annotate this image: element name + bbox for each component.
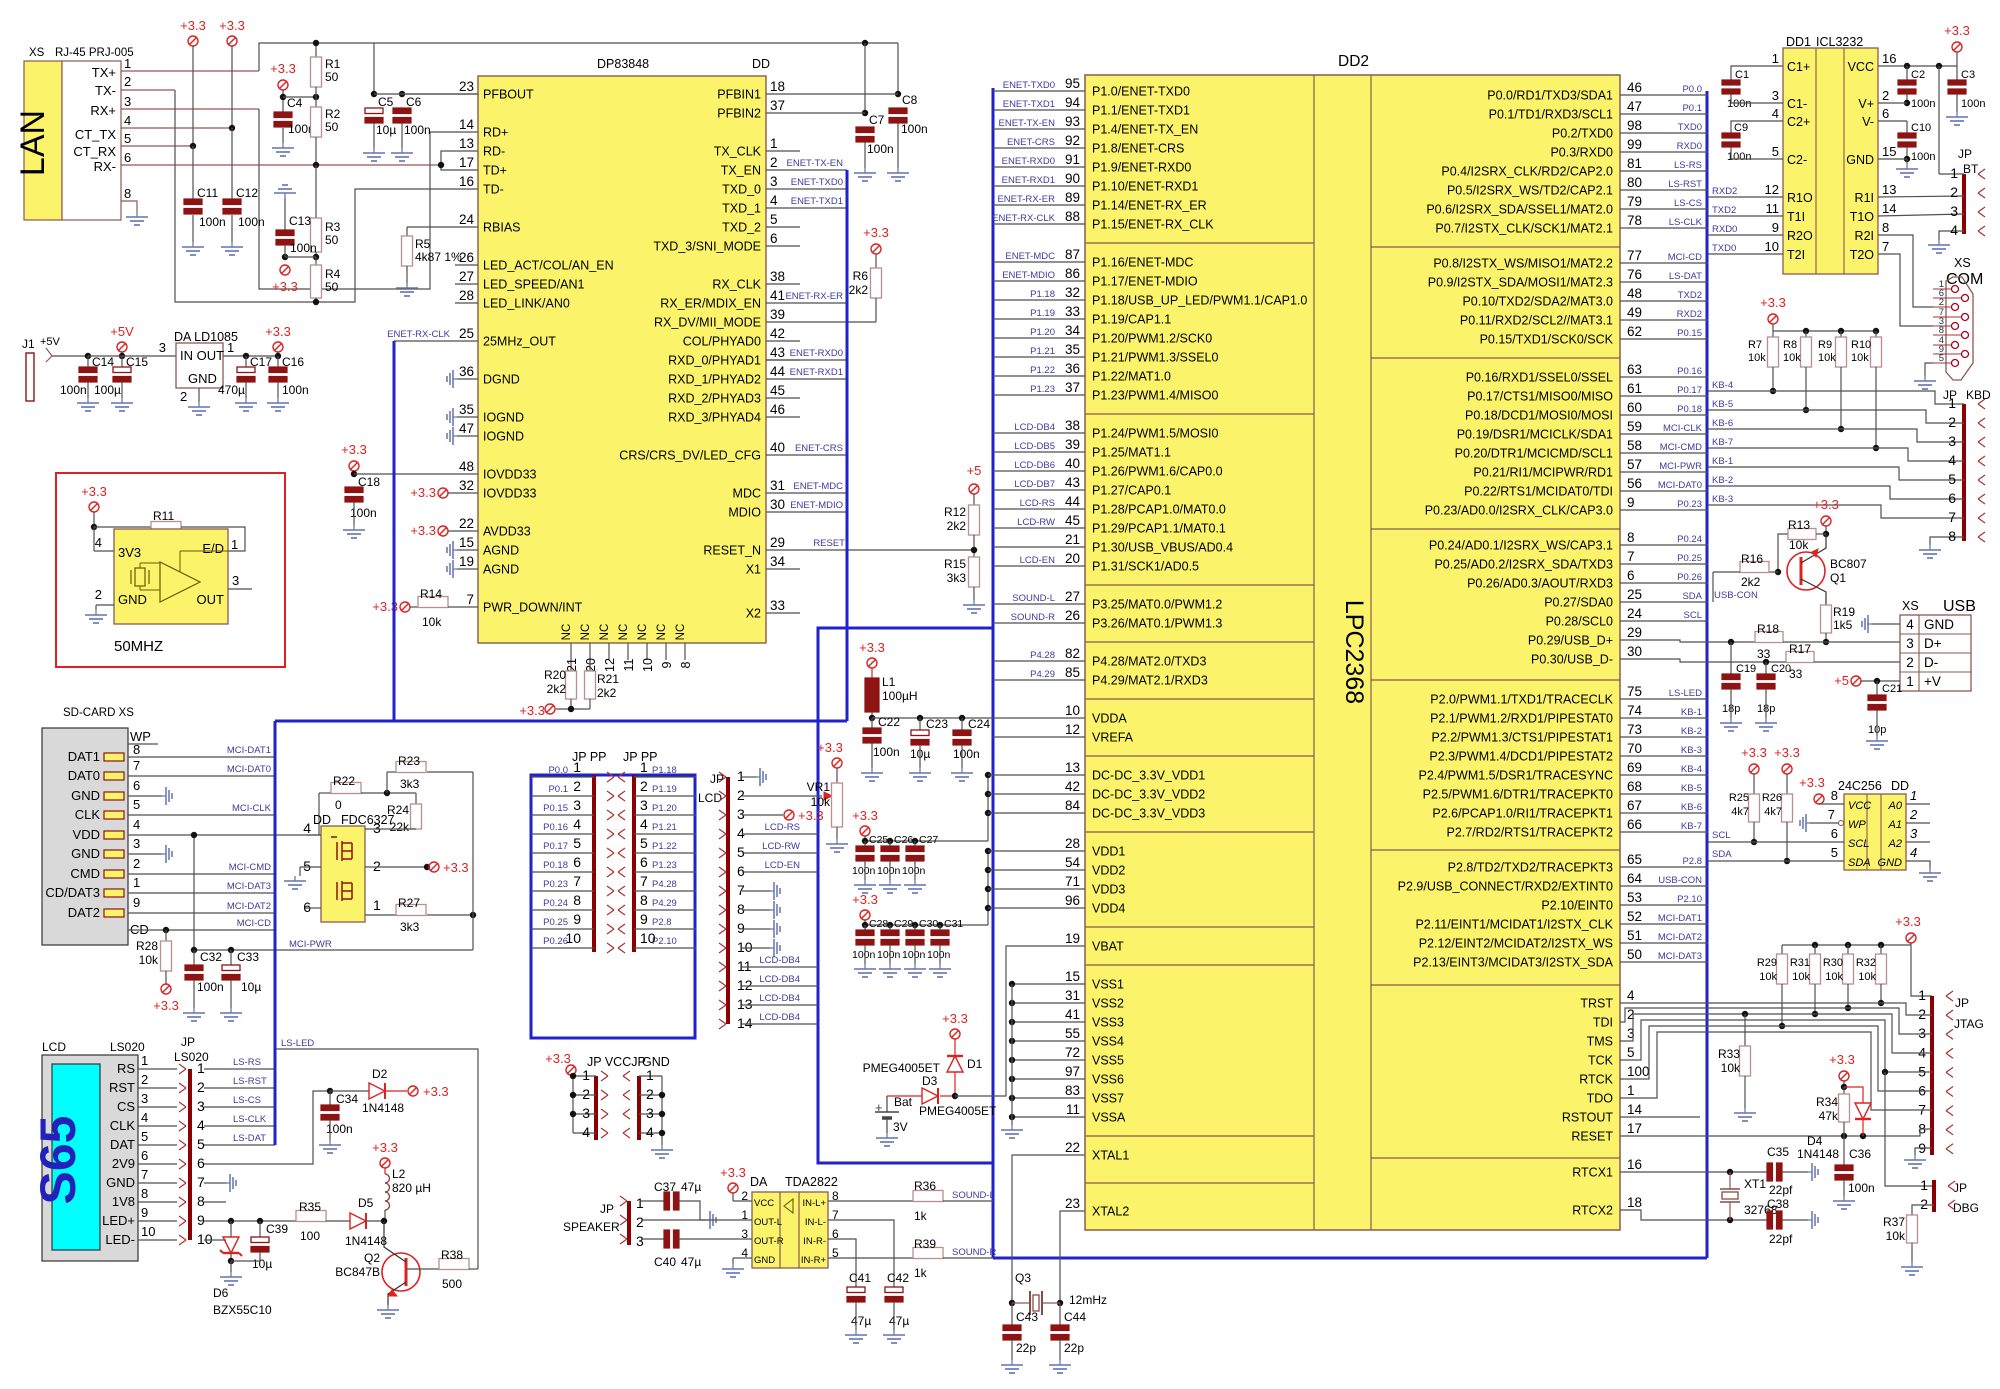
svg-text:PFBIN1: PFBIN1 bbox=[717, 88, 761, 102]
svg-text:P1.24/PWM1.5/MOSI0: P1.24/PWM1.5/MOSI0 bbox=[1092, 427, 1218, 441]
capacitor C24 100n bbox=[961, 718, 963, 730]
capacitor C14 100n bbox=[85, 353, 91, 359]
resistor R7 10k bbox=[1768, 337, 1779, 367]
power +3.3 below C13 bbox=[280, 265, 290, 275]
svg-text:9: 9 bbox=[737, 920, 745, 936]
svg-text:11: 11 bbox=[1066, 1102, 1080, 1117]
svg-text:P1.29/PCAP1.1/MAT0.1: P1.29/PCAP1.1/MAT0.1 bbox=[1092, 522, 1226, 536]
svg-text:ENET-TXD1: ENET-TXD1 bbox=[1003, 99, 1055, 110]
JP PP right pin 6 net P1.23 bbox=[634, 871, 696, 873]
svg-text:TXD0: TXD0 bbox=[1712, 243, 1736, 254]
svg-text:95: 95 bbox=[1065, 76, 1080, 91]
ground D6/C39 bbox=[230, 1261, 232, 1272]
svg-text:1: 1 bbox=[133, 875, 140, 890]
svg-text:10: 10 bbox=[141, 1224, 155, 1239]
net ENET-RX-CLK from 25MHz_OUT bbox=[394, 340, 478, 342]
svg-text:KB-4: KB-4 bbox=[1681, 764, 1702, 775]
svg-text:100n: 100n bbox=[197, 980, 224, 994]
svg-text:DP83848: DP83848 bbox=[597, 57, 649, 71]
svg-text:COL/PHYAD0: COL/PHYAD0 bbox=[683, 335, 761, 349]
ground JP LCD pin10 bbox=[742, 947, 770, 949]
JP LS020 pin 5 bbox=[179, 1140, 186, 1145]
svg-text:23: 23 bbox=[1065, 1196, 1080, 1211]
svg-text:+3.3: +3.3 bbox=[545, 1051, 571, 1066]
ground AGND rotated bbox=[453, 549, 457, 551]
wire LED+ row bbox=[204, 1220, 296, 1222]
JP VCCJP pin 2 bbox=[573, 1094, 596, 1096]
JP LCD pin 3 bbox=[719, 810, 726, 815]
wire V+ row bbox=[1878, 102, 1907, 104]
svg-text:R33: R33 bbox=[1718, 1047, 1740, 1061]
ground C43 bbox=[1011, 1360, 1013, 1365]
svg-text:R15: R15 bbox=[944, 557, 966, 571]
svg-text:10k: 10k bbox=[811, 795, 831, 809]
svg-text:RX+: RX+ bbox=[90, 103, 116, 118]
svg-text:R31: R31 bbox=[1790, 957, 1810, 969]
svg-text:LCD-RW: LCD-RW bbox=[762, 841, 800, 852]
svg-text:VSSA: VSSA bbox=[1092, 1111, 1126, 1125]
svg-text:2k2: 2k2 bbox=[1741, 575, 1761, 589]
COM pin 6 bbox=[1962, 295, 1969, 302]
svg-text:P2.8/TD2/TXD2/TRACEPKT3: P2.8/TD2/TXD2/TRACEPKT3 bbox=[1448, 861, 1613, 875]
svg-text:P0.8/I2STX_WS/MISO1/MAT2.2: P0.8/I2STX_WS/MISO1/MAT2.2 bbox=[1433, 257, 1613, 271]
svg-text:70: 70 bbox=[1627, 741, 1642, 756]
svg-text:D3: D3 bbox=[922, 1074, 938, 1088]
svg-text:ENET-RXD0: ENET-RXD0 bbox=[1002, 156, 1055, 167]
svg-text:2k2: 2k2 bbox=[947, 519, 967, 533]
wire VCC to +3.3 bbox=[1878, 65, 1957, 67]
svg-text:1k: 1k bbox=[914, 1209, 928, 1223]
svg-text:36: 36 bbox=[1065, 361, 1080, 376]
svg-text:9: 9 bbox=[141, 1205, 148, 1220]
svg-text:P4.29: P4.29 bbox=[1030, 669, 1055, 680]
JP LCD pin 11 bbox=[719, 962, 726, 967]
ground C41 bbox=[855, 1330, 857, 1335]
svg-text:S65: S65 bbox=[30, 1116, 86, 1205]
svg-text:D+: D+ bbox=[1924, 636, 1942, 651]
svg-text:CLK: CLK bbox=[110, 1118, 136, 1133]
svg-text:R14: R14 bbox=[420, 587, 442, 601]
svg-text:7: 7 bbox=[141, 1167, 148, 1182]
svg-text:3k3: 3k3 bbox=[947, 571, 967, 585]
net LCD-DB4 pin12 bbox=[742, 985, 818, 987]
svg-text:VDD2: VDD2 bbox=[1092, 864, 1125, 878]
svg-text:100n: 100n bbox=[902, 865, 926, 877]
JTAG pin9 ground bbox=[1915, 1148, 1932, 1155]
svg-text:1: 1 bbox=[1948, 395, 1956, 411]
svg-text:JP: JP bbox=[1953, 1181, 1967, 1195]
svg-text:C42: C42 bbox=[887, 1271, 909, 1285]
svg-text:P1.23: P1.23 bbox=[1030, 384, 1055, 395]
svg-text:P2.10: P2.10 bbox=[652, 936, 677, 947]
wire GND rail bbox=[661, 1076, 663, 1145]
osc buffer triangle bbox=[160, 562, 200, 602]
svg-text:12mHz: 12mHz bbox=[1069, 1293, 1107, 1307]
svg-text:D4: D4 bbox=[1807, 1134, 1823, 1148]
svg-text:XT1: XT1 bbox=[1744, 1177, 1766, 1191]
svg-text:LCD-RW: LCD-RW bbox=[1017, 517, 1055, 528]
svg-text:4k7: 4k7 bbox=[1731, 806, 1749, 818]
svg-text:CT_RX: CT_RX bbox=[73, 144, 116, 159]
svg-text:+3.3: +3.3 bbox=[372, 1140, 398, 1155]
wire VDDA rail bbox=[872, 717, 1085, 719]
svg-text:A2: A2 bbox=[1888, 838, 1902, 850]
svg-text:D1: D1 bbox=[967, 1057, 983, 1071]
svg-text:100n: 100n bbox=[953, 747, 980, 761]
SD CD wire bbox=[128, 929, 275, 931]
COM pin 7 bbox=[1962, 314, 1969, 321]
svg-text:4: 4 bbox=[770, 193, 778, 208]
svg-text:C2: C2 bbox=[1911, 69, 1925, 81]
resistor R32 10k bbox=[1876, 954, 1887, 984]
svg-text:C33: C33 bbox=[237, 950, 259, 964]
svg-text:92: 92 bbox=[1065, 133, 1080, 148]
ground JP LCD pin7 bbox=[742, 890, 770, 892]
resistor R34 47k bbox=[1843, 1087, 1845, 1094]
capacitor C26 100n bbox=[887, 838, 893, 844]
svg-text:6: 6 bbox=[303, 899, 311, 915]
svg-text:R26: R26 bbox=[1762, 792, 1782, 804]
svg-text:P0.15/TXD1/SCK0/SCK: P0.15/TXD1/SCK0/SCK bbox=[1480, 333, 1614, 347]
svg-text:R1O: R1O bbox=[1787, 191, 1813, 205]
svg-text:6: 6 bbox=[124, 150, 131, 165]
svg-text:ENET-RX-CLK: ENET-RX-CLK bbox=[387, 329, 450, 340]
svg-text:3k3: 3k3 bbox=[400, 920, 420, 934]
JP LS020 pin 6 bbox=[179, 1159, 186, 1164]
JP LCD pin 14 bbox=[719, 1019, 726, 1024]
net LCD-DB4 pin14 bbox=[742, 1023, 818, 1025]
svg-text:+3.3: +3.3 bbox=[519, 703, 545, 718]
svg-text:P1.18: P1.18 bbox=[652, 765, 677, 776]
svg-text:D5: D5 bbox=[358, 1196, 374, 1210]
svg-text:5: 5 bbox=[1831, 845, 1838, 860]
svg-text:P0.3/RXD0: P0.3/RXD0 bbox=[1550, 146, 1613, 160]
svg-text:C25: C25 bbox=[869, 834, 888, 846]
capacitor C23 10u bbox=[919, 718, 921, 730]
svg-text:P0.17: P0.17 bbox=[543, 841, 568, 852]
svg-text:SPEAKER: SPEAKER bbox=[563, 1220, 620, 1234]
net TCK wire bbox=[1620, 1020, 1932, 1072]
svg-text:22: 22 bbox=[1065, 1140, 1080, 1155]
svg-text:P1.20: P1.20 bbox=[652, 803, 677, 814]
svg-text:P0.25: P0.25 bbox=[1677, 553, 1702, 564]
junction VBAT node bbox=[952, 1093, 958, 1099]
JP PP right pin 7 net P4.28 bbox=[634, 890, 696, 892]
resistor R33 10k bbox=[1742, 1011, 1748, 1017]
svg-text:JP: JP bbox=[600, 1202, 614, 1216]
svg-text:6: 6 bbox=[1882, 106, 1889, 121]
svg-text:KB-7: KB-7 bbox=[1712, 437, 1733, 448]
svg-text:KB-2: KB-2 bbox=[1681, 726, 1702, 737]
svg-text:Q1: Q1 bbox=[1830, 571, 1846, 585]
svg-text:VSS6: VSS6 bbox=[1092, 1073, 1124, 1087]
svg-text:+3.3: +3.3 bbox=[1829, 1052, 1855, 1067]
50MHZ oscillator module frame bbox=[56, 473, 285, 667]
svg-text:R17: R17 bbox=[1789, 642, 1811, 656]
net KB-2 to KBD pin 6 bbox=[1708, 486, 1964, 499]
inductor L2 820uH bbox=[385, 1174, 390, 1183]
capacitor C28 100n bbox=[862, 922, 868, 928]
rail R7-R10 tops bbox=[1773, 330, 1878, 332]
wire VCCJP rail bbox=[572, 1076, 574, 1133]
svg-text:SCL: SCL bbox=[1712, 830, 1730, 841]
resistor R24 22k bbox=[415, 793, 417, 804]
resistor R38 500 bbox=[406, 1268, 439, 1270]
capacitor C30 100n bbox=[912, 922, 918, 928]
svg-text:GND: GND bbox=[1878, 857, 1903, 869]
svg-text:NC: NC bbox=[599, 624, 611, 641]
svg-text:10k: 10k bbox=[1886, 1229, 1906, 1243]
svg-text:VCC: VCC bbox=[754, 1198, 774, 1209]
svg-text:TD-: TD- bbox=[483, 183, 504, 197]
svg-text:21: 21 bbox=[565, 658, 579, 672]
svg-text:L1: L1 bbox=[882, 675, 896, 689]
svg-text:C5: C5 bbox=[378, 95, 394, 109]
svg-text:47: 47 bbox=[459, 421, 474, 436]
svg-text:LCD-EN: LCD-EN bbox=[765, 860, 801, 871]
svg-text:DAT1: DAT1 bbox=[68, 749, 100, 764]
svg-text:3: 3 bbox=[197, 1098, 205, 1114]
svg-text:R25: R25 bbox=[1729, 792, 1749, 804]
svg-text:3: 3 bbox=[737, 806, 745, 822]
svg-text:LPC2368: LPC2368 bbox=[1340, 600, 1368, 704]
svg-text:TX-: TX- bbox=[95, 83, 116, 98]
svg-text:25: 25 bbox=[459, 326, 474, 341]
diode D4 1N4148 bbox=[1844, 1087, 1863, 1103]
svg-text:7: 7 bbox=[466, 592, 474, 607]
svg-text:TMS: TMS bbox=[1587, 1035, 1613, 1049]
svg-text:LAN: LAN bbox=[14, 110, 52, 176]
svg-text:USB: USB bbox=[1943, 598, 1976, 615]
capacitor C8 100n at PFBIN1 bbox=[897, 43, 899, 94]
JP VCCJP pin 1 bbox=[573, 1075, 596, 1077]
JP LCD pin 6 bbox=[719, 867, 726, 872]
svg-text:4: 4 bbox=[573, 816, 581, 832]
svg-text:IN-R+: IN-R+ bbox=[801, 1255, 827, 1266]
svg-text:22: 22 bbox=[459, 516, 474, 531]
svg-text:GND: GND bbox=[1846, 153, 1874, 167]
wire to regulator bbox=[88, 355, 176, 357]
svg-text:+3.3: +3.3 bbox=[798, 808, 824, 823]
wire IN-R- to C41 bbox=[828, 1239, 856, 1287]
net LS-RST bbox=[204, 1087, 275, 1089]
wire TX- staircase to TD- bbox=[175, 90, 478, 302]
svg-text:21: 21 bbox=[1065, 532, 1080, 547]
net TRST wire bbox=[1620, 1003, 1932, 1015]
svg-text:P3.25/MAT0.0/PWM1.2: P3.25/MAT0.0/PWM1.2 bbox=[1092, 598, 1222, 612]
ground AGND 19 rotated bbox=[453, 568, 457, 570]
capacitor C33 10u bbox=[230, 950, 232, 965]
svg-text:4: 4 bbox=[1910, 845, 1917, 860]
svg-text:TXD0: TXD0 bbox=[1678, 122, 1702, 133]
net TXD2 to T1I bbox=[1708, 215, 1783, 217]
net ENET-RXD1 bbox=[766, 378, 847, 380]
FDC mosfet glyphs bbox=[336, 842, 338, 860]
resistor R19 1k5 bbox=[1821, 605, 1832, 633]
svg-text:LCD: LCD bbox=[42, 1040, 66, 1054]
svg-text:4: 4 bbox=[133, 817, 140, 832]
svg-text:3: 3 bbox=[1918, 1025, 1926, 1041]
ground C3 bbox=[1956, 112, 1958, 117]
svg-text:77: 77 bbox=[1627, 248, 1642, 263]
svg-text:84: 84 bbox=[1065, 798, 1081, 813]
svg-text:15: 15 bbox=[1882, 144, 1896, 159]
ground C8 bbox=[897, 168, 899, 173]
svg-text:6: 6 bbox=[1831, 826, 1838, 841]
svg-text:P0.25/AD0.2/I2SRX_SDA/TXD3: P0.25/AD0.2/I2SRX_SDA/TXD3 bbox=[1434, 558, 1613, 572]
svg-text:16: 16 bbox=[1882, 51, 1896, 66]
JP PP left pin 6 net P0.18 bbox=[531, 871, 594, 873]
svg-text:1: 1 bbox=[1906, 674, 1914, 689]
svg-text:5: 5 bbox=[640, 835, 648, 851]
svg-text:+3.3: +3.3 bbox=[852, 892, 878, 907]
svg-text:69: 69 bbox=[1627, 760, 1642, 775]
svg-text:24: 24 bbox=[459, 212, 475, 227]
svg-text:7: 7 bbox=[640, 873, 648, 889]
svg-text:RSTOUT: RSTOUT bbox=[1562, 1111, 1614, 1125]
svg-text:LED+: LED+ bbox=[102, 1213, 135, 1228]
svg-text:40: 40 bbox=[770, 440, 785, 455]
resistor R27 3k3 bbox=[396, 905, 426, 916]
net RXD2 to R1O bbox=[1708, 196, 1783, 198]
svg-text:100n: 100n bbox=[852, 865, 876, 877]
svg-text:P2.8: P2.8 bbox=[652, 917, 672, 928]
svg-text:47µ: 47µ bbox=[889, 1314, 909, 1328]
resistor R10 10k bbox=[1871, 337, 1882, 367]
svg-text:P2.10: P2.10 bbox=[1677, 894, 1702, 905]
svg-text:C1+: C1+ bbox=[1787, 60, 1810, 74]
svg-text:P0.23: P0.23 bbox=[543, 879, 568, 890]
net LS-CLK bbox=[204, 1125, 275, 1127]
ground ICL bbox=[1906, 164, 1908, 169]
svg-text:CD/DAT3: CD/DAT3 bbox=[45, 885, 100, 900]
resistor R25 4k7 bbox=[1749, 794, 1760, 822]
svg-text:19: 19 bbox=[1065, 931, 1080, 946]
svg-text:88: 88 bbox=[1065, 209, 1080, 224]
svg-text:T1I: T1I bbox=[1787, 210, 1805, 224]
net TDI wire bbox=[1620, 1008, 1932, 1034]
svg-text:4: 4 bbox=[124, 113, 131, 128]
svg-text:1: 1 bbox=[770, 136, 778, 151]
svg-text:34: 34 bbox=[1065, 323, 1081, 338]
wire PFBOUT row bbox=[402, 93, 478, 95]
svg-text:USB-CON: USB-CON bbox=[1658, 875, 1702, 886]
JP LCD pin 5 bbox=[719, 848, 726, 853]
svg-text:P4.28/MAT2.0/TXD3: P4.28/MAT2.0/TXD3 bbox=[1092, 655, 1206, 669]
svg-text:4: 4 bbox=[640, 816, 648, 832]
svg-text:GND: GND bbox=[188, 371, 217, 386]
svg-text:R35: R35 bbox=[299, 1200, 321, 1214]
ground C42 bbox=[893, 1330, 895, 1335]
svg-text:50: 50 bbox=[325, 233, 339, 247]
eeprom A1 pin2 bbox=[1906, 822, 1930, 824]
svg-text:P4.29: P4.29 bbox=[652, 898, 677, 909]
svg-text:P1.14/ENET-RX_ER: P1.14/ENET-RX_ER bbox=[1092, 199, 1207, 213]
svg-text:JP: JP bbox=[1955, 996, 1969, 1010]
svg-text:76: 76 bbox=[1627, 267, 1642, 282]
svg-text:500: 500 bbox=[442, 1277, 462, 1291]
osc crystal glyph bbox=[130, 570, 132, 584]
svg-text:4: 4 bbox=[197, 1117, 205, 1133]
svg-text:IOGND: IOGND bbox=[483, 430, 524, 444]
net LCD-RS bbox=[742, 833, 818, 835]
svg-text:SD-CARD XS: SD-CARD XS bbox=[63, 707, 134, 719]
net LCD-EN bbox=[742, 871, 818, 873]
svg-text:74: 74 bbox=[1627, 703, 1643, 718]
JP PP left pin 1 net P0.0 bbox=[531, 776, 594, 778]
JP LS020 pin 3 bbox=[179, 1102, 186, 1107]
resistor R29 10k bbox=[1777, 954, 1788, 984]
svg-text:+3.3: +3.3 bbox=[1813, 497, 1839, 512]
svg-text:4: 4 bbox=[1906, 617, 1914, 632]
svg-text:80: 80 bbox=[1627, 175, 1642, 190]
capacitor C44 22p bbox=[1059, 1303, 1061, 1325]
svg-text:8: 8 bbox=[1939, 325, 1944, 336]
svg-text:11: 11 bbox=[622, 658, 636, 671]
JP PP right pin 4 net P1.21 bbox=[634, 833, 696, 835]
svg-text:LCD-DB4: LCD-DB4 bbox=[759, 955, 800, 966]
svg-text:1: 1 bbox=[1950, 165, 1958, 181]
svg-text:13: 13 bbox=[1065, 760, 1080, 775]
power +3.3 FDC pin2 bbox=[424, 864, 430, 870]
svg-text:R37: R37 bbox=[1883, 1215, 1905, 1229]
net TMS wire bbox=[1620, 1014, 1932, 1053]
svg-text:P0.1: P0.1 bbox=[548, 784, 568, 795]
svg-text:OUT-R: OUT-R bbox=[754, 1236, 784, 1247]
svg-text:P0.17/CTS1/MISO0/MISO: P0.17/CTS1/MISO0/MISO bbox=[1467, 390, 1613, 404]
svg-text:55: 55 bbox=[1065, 1026, 1080, 1041]
JP SPEAKER pin 1 bbox=[620, 1196, 627, 1201]
svg-text:3: 3 bbox=[373, 820, 381, 836]
svg-text:JP: JP bbox=[181, 1035, 195, 1049]
svg-text:+3.3: +3.3 bbox=[410, 523, 436, 538]
svg-text:2: 2 bbox=[1909, 807, 1918, 822]
svg-text:R11: R11 bbox=[153, 509, 174, 523]
svg-text:90: 90 bbox=[1065, 171, 1080, 186]
svg-text:1N4148: 1N4148 bbox=[345, 1234, 387, 1248]
svg-text:MCI-DAT1: MCI-DAT1 bbox=[1658, 913, 1702, 924]
power +3.3 at R20 bbox=[545, 704, 555, 714]
svg-text:DA: DA bbox=[750, 1175, 768, 1189]
stub JP10 bbox=[204, 1239, 226, 1241]
svg-text:7: 7 bbox=[737, 882, 745, 898]
svg-text:P2.1/PWM1.2/RXD1/PIPESTAT0: P2.1/PWM1.2/RXD1/PIPESTAT0 bbox=[1430, 712, 1613, 726]
svg-text:T2I: T2I bbox=[1787, 248, 1805, 262]
svg-text:10k: 10k bbox=[422, 615, 442, 629]
net LCD-RW bbox=[742, 852, 818, 854]
svg-text:P1.10/ENET-RXD1: P1.10/ENET-RXD1 bbox=[1092, 180, 1198, 194]
svg-text:50: 50 bbox=[325, 70, 339, 84]
ground C44 bbox=[1059, 1360, 1061, 1365]
svg-text:FDC6327: FDC6327 bbox=[341, 813, 395, 827]
svg-text:4k87 1%: 4k87 1% bbox=[415, 250, 462, 264]
wire R3 top from RX- row bbox=[315, 165, 317, 218]
svg-text:P0.26/AD0.3/AOUT/RXD3: P0.26/AD0.3/AOUT/RXD3 bbox=[1467, 577, 1613, 591]
svg-text:ENET-CRS: ENET-CRS bbox=[795, 443, 843, 454]
svg-text:P0.20/DTR1/MCICMD/SCL1: P0.20/DTR1/MCICMD/SCL1 bbox=[1455, 447, 1613, 461]
JP PP left pin 8 net P0.24 bbox=[531, 909, 594, 911]
svg-text:V+: V+ bbox=[1858, 97, 1874, 111]
svg-text:OUT-L: OUT-L bbox=[754, 1217, 782, 1228]
svg-text:RD+: RD+ bbox=[483, 126, 508, 140]
svg-text:40: 40 bbox=[1065, 456, 1080, 471]
svg-text:8: 8 bbox=[1627, 530, 1635, 545]
net LCD-DB4 pin11 bbox=[742, 966, 818, 968]
svg-text:P0.30/USB_D-: P0.30/USB_D- bbox=[1531, 653, 1613, 667]
power +3.3 at D2 bbox=[408, 1086, 418, 1096]
svg-text:P1.19: P1.19 bbox=[652, 784, 677, 795]
svg-text:45: 45 bbox=[770, 383, 785, 398]
